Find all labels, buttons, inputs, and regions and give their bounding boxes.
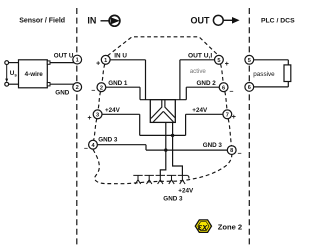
module terminal 7: [223, 110, 232, 119]
wire GND: [50, 83, 74, 85]
svg-text:+: +: [225, 61, 229, 68]
contact 4: [167, 175, 176, 184]
Us arrow: [6, 65, 8, 79]
wire A from square bottom (GND3): [160, 122, 166, 175]
contact 5: [178, 175, 187, 184]
OUT symbol (circle with outward arrow): [213, 15, 239, 25]
svg-text:GND: GND: [55, 89, 69, 96]
svg-text:εx: εx: [198, 222, 208, 232]
wire +24V left: [102, 113, 140, 115]
junction dot GND3: [164, 148, 167, 151]
top connect line: [140, 99, 186, 101]
svg-text:1: 1: [76, 58, 79, 64]
svg-text:GND 3: GND 3: [98, 137, 118, 144]
contact 2: [145, 175, 154, 184]
module terminal 2: [97, 83, 106, 92]
svg-text:+24V: +24V: [178, 187, 194, 194]
PLC load wire top: [254, 59, 289, 61]
module terminal 1: [101, 55, 110, 64]
junction dot +24V: [171, 134, 174, 137]
wire OUT U,I: [180, 59, 215, 61]
svg-text:4-wire: 4-wire: [25, 71, 44, 78]
wire sensor bottom: [9, 83, 19, 85]
svg-text:passive: passive: [253, 71, 275, 78]
module terminal 6: [219, 83, 228, 92]
module terminal 8: [227, 146, 236, 155]
svg-text:1: 1: [104, 58, 107, 64]
wire GND 3 rail: [146, 149, 227, 151]
svg-text:8: 8: [230, 148, 233, 154]
module outline dashed: [93, 37, 232, 184]
PLC terminal 5: [245, 55, 254, 64]
svg-text:active: active: [190, 68, 207, 75]
wire +24V right: [186, 113, 223, 115]
wire GND 3 left: [98, 144, 147, 146]
svg-text:OUT U: OUT U: [54, 53, 74, 60]
svg-text:6: 6: [248, 85, 251, 91]
isolation Y divider (double lines): [151, 100, 175, 122]
module terminal 3: [93, 110, 102, 119]
wire IN U: [110, 59, 145, 61]
module terminal 5: [215, 55, 224, 64]
svg-text:–: –: [91, 88, 95, 95]
sensor terminal top circle: [5, 61, 9, 65]
contact 3: [156, 175, 165, 184]
svg-text:7: 7: [226, 112, 229, 118]
svg-text:–: –: [229, 89, 233, 96]
svg-text:6: 6: [222, 85, 225, 91]
svg-text:+: +: [96, 61, 100, 68]
Ex logo: [195, 220, 211, 233]
svg-text:+: +: [88, 115, 92, 122]
svg-text:OUT: OUT: [191, 16, 211, 26]
svg-text:PLC / DCS: PLC / DCS: [261, 17, 295, 24]
4-wire box: [19, 60, 48, 88]
svg-text:Zone 2: Zone 2: [218, 222, 242, 231]
module terminal 4: [89, 140, 98, 149]
bus end hook: [187, 175, 189, 178]
svg-text:Sensor / Field: Sensor / Field: [19, 17, 65, 24]
wire B from square bottom (+24V): [173, 122, 183, 175]
wire sensor top: [9, 62, 19, 64]
terminal 1 left line: [73, 55, 82, 64]
sensor terminal bottom circle: [5, 82, 9, 86]
PLC load wire bottom: [287, 82, 289, 87]
bus plug contacts: [133, 175, 189, 184]
left zone boundary dashed line: [76, 8, 78, 247]
isolation symbol square: [150, 100, 175, 123]
wire OUT U: [50, 62, 74, 64]
IN symbol (circle with inward arrow): [101, 15, 120, 26]
box tab bottom: [47, 83, 50, 86]
svg-text:5: 5: [248, 58, 251, 64]
svg-text:OUT U,I: OUT U,I: [188, 52, 212, 59]
wire GND 1: [106, 86, 140, 88]
svg-text:GND 2: GND 2: [197, 80, 217, 87]
svg-text:2: 2: [100, 85, 103, 91]
right zone boundary dashed line: [248, 8, 250, 247]
wire +24V bottom run: [140, 134, 186, 136]
svg-text:–: –: [84, 145, 88, 152]
svg-text:GND 3: GND 3: [203, 142, 223, 149]
PLC load resistor: [284, 65, 291, 82]
terminal 2 left line: [73, 83, 82, 92]
svg-text:+: +: [232, 114, 236, 121]
wire GND 2: [186, 86, 219, 88]
svg-text:5: 5: [217, 58, 220, 64]
svg-text:3: 3: [96, 112, 99, 118]
contact 1: [133, 175, 142, 184]
svg-text:GND 1: GND 1: [108, 80, 128, 87]
svg-text:2: 2: [76, 85, 79, 91]
box tab top: [47, 61, 50, 64]
PLC terminal 6: [245, 83, 254, 92]
svg-text:IN: IN: [87, 16, 96, 26]
svg-text:+24V: +24V: [105, 107, 121, 114]
svg-text:IN U: IN U: [114, 52, 127, 59]
svg-text:–: –: [238, 151, 242, 158]
svg-text:+24V: +24V: [192, 107, 208, 114]
svg-text:GND 3: GND 3: [163, 195, 183, 202]
